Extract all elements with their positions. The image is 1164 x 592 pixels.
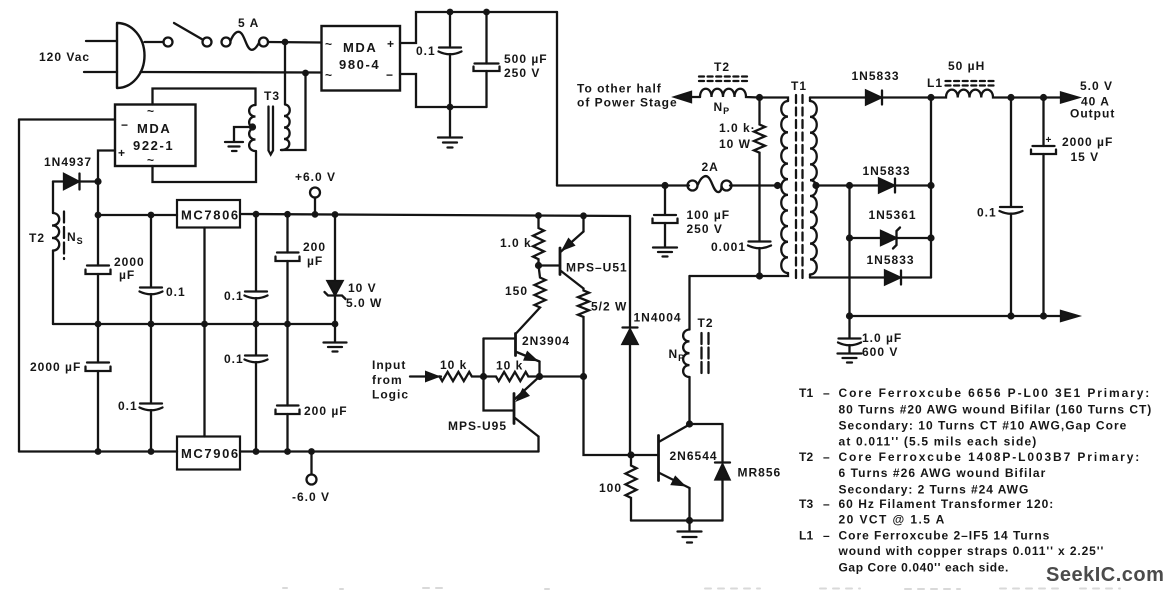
wire base column	[484, 339, 515, 411]
ground below C1	[438, 107, 462, 148]
node T2 top junction	[756, 94, 763, 101]
svg-text:2N6544: 2N6544	[670, 449, 718, 463]
faint bottom marks	[283, 588, 1120, 589]
wire input arrow	[410, 372, 441, 381]
svg-text:2000 µF: 2000 µF	[1062, 135, 1113, 149]
svg-text:L1: L1	[927, 76, 943, 90]
resistor R7 1.0k 10W	[754, 98, 765, 241]
wire U3 gnd pin down	[203, 228, 205, 325]
wire node to U51 base	[539, 264, 561, 266]
bridge rectifier U1 MDA 980-4	[322, 26, 401, 91]
resistor R4 10k	[440, 372, 484, 381]
svg-text:µF: µF	[307, 254, 323, 268]
svg-text:15 V: 15 V	[1071, 150, 1100, 164]
svg-text:Secondary: 2 Turns #24 AWG: Secondary: 2 Turns #24 AWG	[839, 483, 1029, 497]
svg-text:922-1: 922-1	[133, 138, 174, 153]
node plus6 x256	[253, 211, 260, 218]
svg-text:6 Turns #26 AWG wound Bifilar: 6 Turns #26 AWG wound Bifilar	[839, 466, 1046, 480]
wire node down to T3 secondary top	[284, 42, 286, 104]
node T1 secondary tap	[812, 182, 819, 189]
node bottom line	[686, 517, 693, 524]
capacitor C12 0.001	[748, 242, 771, 277]
arrow output	[1061, 93, 1078, 103]
transformer T2 secondary winding Ns	[52, 213, 59, 251]
wire dc bus to fuse	[557, 184, 689, 186]
regulator U4 MC7906	[177, 437, 240, 470]
AC plug P1	[117, 23, 145, 88]
wire lower bus left	[19, 450, 177, 452]
wire diode rail vertical	[848, 186, 850, 317]
node return x1011	[1007, 312, 1014, 319]
svg-text:Logic: Logic	[372, 388, 409, 402]
regulator U3 MC7806	[177, 200, 240, 228]
svg-text:NP: NP	[714, 100, 731, 116]
inductor L1 core dashed	[946, 81, 995, 86]
zener diode D6 1N5361	[850, 228, 932, 249]
svg-text:1N5833: 1N5833	[867, 253, 915, 267]
wire regulator input line	[98, 214, 177, 216]
svg-text:1.0 k: 1.0 k	[500, 236, 532, 250]
node zener row right	[927, 234, 934, 241]
svg-text:5/2 W: 5/2 W	[591, 300, 627, 314]
diode D5 1N5833 mid	[850, 179, 932, 193]
svg-text:200 µF: 200 µF	[304, 404, 348, 418]
svg-text:1N4937: 1N4937	[44, 155, 92, 169]
svg-text:1.0 k·: 1.0 k·	[719, 121, 756, 135]
svg-text:1N5361: 1N5361	[869, 208, 917, 222]
wire diode anode down to T2 winding	[52, 182, 54, 214]
svg-text:+: +	[1046, 135, 1052, 146]
svg-text:T3: T3	[799, 497, 814, 511]
node base column	[480, 373, 487, 380]
svg-text:+: +	[387, 37, 395, 51]
node output x1011	[1007, 94, 1014, 101]
svg-text:100: 100	[599, 481, 622, 495]
capacitor C5 0.1 mid upper	[245, 214, 268, 324]
svg-text:MPS-U95: MPS-U95	[448, 419, 507, 433]
node lower bus x98	[95, 448, 102, 455]
label Input from Logic	[372, 358, 409, 402]
svg-text:NS: NS	[67, 230, 84, 246]
wire junction to 5/2W node	[540, 375, 584, 377]
svg-text:–: –	[823, 529, 830, 543]
wire 5/2W node down and right	[584, 377, 632, 456]
node L1 input	[927, 94, 934, 101]
transformer T2 core dashed	[63, 212, 65, 260]
switch S1	[164, 23, 212, 47]
node plus6 x335	[332, 211, 339, 218]
wire AC line top	[86, 40, 117, 42]
svg-text:250 V: 250 V	[504, 66, 540, 80]
wire U2 minus to left rail	[19, 118, 115, 120]
diode D3 MR856	[690, 424, 731, 521]
zener diode Z1 10V 5.0W	[325, 215, 346, 325]
wire node down to T3 secondary bottom	[281, 73, 306, 150]
wire U2 ac top to T3 primary top	[153, 89, 256, 106]
svg-text:~: ~	[147, 153, 155, 167]
node rail x931 mid	[927, 182, 934, 189]
svg-text:MC7806: MC7806	[181, 208, 240, 223]
svg-text:–: –	[823, 497, 830, 511]
transformer T2 core dashed mid	[702, 333, 709, 374]
notes text block	[799, 386, 1152, 575]
capacitor C13 1.0uF 600V	[838, 316, 862, 363]
svg-text:Gap Core 0.040'' each side.: Gap Core 0.040'' each side.	[839, 561, 1009, 575]
svg-text:Input: Input	[372, 358, 406, 372]
svg-text:T2: T2	[698, 316, 714, 330]
wire bridge plus output to top rail	[400, 12, 557, 43]
node lower bus x311	[308, 448, 315, 455]
svg-text:T1: T1	[799, 386, 814, 400]
transistor Q2 2N3904	[484, 334, 540, 377]
wire lower bus right	[240, 450, 539, 452]
svg-text:~: ~	[147, 104, 155, 118]
svg-text:1N5833: 1N5833	[852, 69, 900, 83]
capacitor C11 100uF 250V	[653, 186, 678, 247]
resistor R2 150	[516, 266, 546, 335]
fuse F2 2A	[688, 176, 732, 192]
transformer T2 winding top	[700, 89, 760, 98]
arrow to other half	[675, 92, 700, 102]
svg-text:1N4004: 1N4004	[634, 311, 682, 325]
wire tap to diode rail	[818, 184, 850, 186]
svg-text:MDA: MDA	[343, 40, 377, 55]
wire upper ground bus	[53, 323, 335, 325]
ground zener	[324, 324, 347, 352]
node 100uF tap	[661, 182, 668, 189]
resistor R6 100	[626, 455, 637, 521]
wire bridge minus output	[400, 74, 487, 107]
svg-text:–: –	[823, 450, 830, 464]
transformer T3 core	[269, 107, 274, 155]
svg-text:~: ~	[325, 68, 333, 82]
svg-text:Core Ferroxcube 6656 P-L00 3E1: Core Ferroxcube 6656 P-L00 3E1 Primary:	[839, 386, 1150, 400]
node fuse output	[282, 39, 289, 46]
transformer T2 core dashed top	[699, 77, 747, 82]
transistor Q3 MPS-U95	[514, 377, 540, 452]
svg-text:T1: T1	[791, 79, 807, 93]
wire U2 ac bottom to T3 primary bottom	[153, 151, 257, 182]
node R1 bottom	[535, 262, 542, 269]
capacitor C4 0.1 left upper	[140, 215, 163, 324]
diode D2 1N4004	[623, 216, 638, 455]
svg-text:5 A: 5 A	[238, 16, 259, 30]
fuse F1 5A	[222, 32, 269, 50]
svg-text:2N3904: 2N3904	[522, 334, 570, 348]
node emitter junction	[536, 373, 543, 380]
svg-text:MR856: MR856	[738, 466, 782, 480]
svg-text:T2: T2	[29, 231, 45, 245]
transformer T1 core dashed	[796, 95, 803, 281]
node bus x335	[332, 321, 339, 328]
svg-text:0.1: 0.1	[166, 285, 186, 299]
capacitor C6 200uF upper	[276, 214, 300, 324]
svg-text:10 k: 10 k	[440, 358, 467, 372]
node reg line x98	[95, 212, 102, 219]
svg-text:1.0 µF: 1.0 µF	[862, 331, 902, 345]
node rail bottom	[846, 312, 853, 319]
wire emitter bottom line	[631, 519, 723, 521]
capacitor C3 2000uF upper	[86, 215, 111, 324]
svg-text:L1: L1	[799, 529, 814, 543]
wire AC line bottom	[84, 71, 117, 73]
node AC bottom	[302, 70, 309, 77]
svg-text:MDA: MDA	[137, 121, 171, 136]
node zener row left	[846, 234, 853, 241]
node 5/2W bottom	[580, 373, 587, 380]
svg-text:-6.0 V: -6.0 V	[292, 490, 330, 504]
svg-text:Secondary: 10 Turns CT #10 AWG: Secondary: 10 Turns CT #10 AWG,Gap Core	[839, 419, 1127, 433]
diode D7 1N5833 bottom	[810, 271, 931, 285]
node return x1043	[1040, 312, 1047, 319]
node T1 primary tap	[774, 182, 781, 189]
label 5.0V 40A Output	[1070, 79, 1115, 121]
wire bus to U4 input pin	[203, 324, 205, 437]
node T3 primary center tap	[249, 123, 256, 130]
svg-text:600 V: 600 V	[862, 345, 898, 359]
transformer T1 secondary winding	[810, 98, 817, 278]
svg-text:250 V: 250 V	[687, 222, 723, 236]
capacitor C7 2000uF lower	[86, 324, 111, 452]
svg-text:50 µH: 50 µH	[948, 59, 985, 73]
wire plus6 line	[240, 214, 630, 216]
node minus rail	[447, 104, 454, 111]
svg-text:0.1: 0.1	[118, 399, 138, 413]
resistor R3 5/2W	[578, 289, 589, 377]
svg-text:T2: T2	[714, 60, 730, 74]
svg-text:0.1: 0.1	[977, 206, 997, 220]
svg-text:wound with copper straps 0.011: wound with copper straps 0.011'' x 2.25'…	[838, 544, 1104, 558]
label To other half of Power Stage	[577, 82, 678, 110]
node bus x287	[284, 321, 291, 328]
wire tap to ground	[234, 127, 253, 141]
node reg line x151	[148, 212, 155, 219]
svg-text:10 k: 10 k	[496, 359, 523, 373]
node plus6 x287	[284, 211, 291, 218]
svg-text:5.0 V: 5.0 V	[1080, 79, 1113, 93]
svg-text:150: 150	[505, 284, 528, 298]
svg-text:10 V: 10 V	[348, 281, 377, 295]
svg-text:µF: µF	[119, 268, 135, 282]
ground C11	[653, 248, 677, 257]
node top rail C1	[447, 9, 454, 16]
svg-text:5.0 W: 5.0 W	[346, 296, 382, 310]
svg-text:980-4: 980-4	[339, 57, 380, 72]
svg-text:2000 µF: 2000 µF	[30, 360, 81, 374]
node bus x256	[253, 321, 260, 328]
wire U2 plus down to diode node	[98, 151, 115, 182]
node bus x204	[201, 321, 208, 328]
capacitor C8 0.1 left lower	[140, 324, 163, 452]
capacitor C14 0.1 output	[1000, 98, 1023, 317]
capacitor C15 2000uF 15V	[1031, 98, 1056, 317]
svg-text:2A: 2A	[702, 160, 719, 174]
svg-text:of Power Stage: of Power Stage	[577, 96, 678, 110]
svg-text:2000: 2000	[114, 255, 145, 269]
svg-text:MPS–U51: MPS–U51	[566, 261, 628, 275]
transformer T3 secondary winding	[281, 105, 290, 151]
node output x1043	[1040, 94, 1047, 101]
wire ground return line	[850, 315, 1062, 317]
svg-text:Core Ferroxcube 2–IF5 14 Turns: Core Ferroxcube 2–IF5 14 Turns	[839, 529, 1050, 543]
wire output rail vertical	[930, 98, 932, 278]
svg-text:1N5833: 1N5833	[863, 164, 911, 178]
svg-text:T2: T2	[799, 450, 814, 464]
svg-text:Output: Output	[1070, 107, 1115, 121]
node diode cathode	[94, 178, 101, 185]
transformer T2 primary winding Np	[683, 276, 689, 424]
svg-text:20 VCT @ 1.5 A: 20 VCT @ 1.5 A	[839, 513, 945, 527]
svg-text:MC7906: MC7906	[181, 446, 240, 461]
inductor L1 50uH	[931, 90, 1061, 98]
capacitor C1 0.1	[439, 12, 462, 107]
wire plug to switch	[145, 41, 164, 43]
capacitor C2 500uF 250V	[474, 12, 500, 107]
wire AC bottom to bridge	[141, 71, 322, 74]
svg-text:0.1: 0.1	[224, 289, 244, 303]
ground T3 tap	[225, 142, 243, 151]
transformer T3 primary winding	[249, 105, 255, 151]
svg-text:−: −	[121, 118, 129, 132]
node bus x151	[148, 321, 155, 328]
svg-text:SeekIC.com: SeekIC.com	[1046, 564, 1164, 586]
resistor R1 1.0k	[533, 212, 544, 265]
svg-text:at 0.011'' (5.5 mils each side: at 0.011'' (5.5 mils each side)	[839, 435, 1037, 449]
svg-text:500 µF: 500 µF	[504, 52, 548, 66]
node lower bus x287	[284, 448, 291, 455]
node 0.001 bottom	[756, 272, 763, 279]
wire top rail down to 2A fuse line	[556, 12, 558, 186]
node Q4 collector	[686, 420, 693, 427]
terminal -6.0 V	[292, 452, 330, 505]
resistor R5 10k	[484, 372, 540, 381]
capacitor C9 0.1 mid lower	[245, 324, 268, 452]
wire node to Q4 base	[631, 454, 659, 456]
capacitor C10 200uF lower	[276, 324, 300, 452]
svg-text:0.1: 0.1	[416, 44, 436, 58]
ground Q4 emitter	[678, 521, 702, 543]
svg-text:10 W: 10 W	[719, 137, 751, 151]
svg-text:Core Ferroxcube 1408P-L003B7 P: Core Ferroxcube 1408P-L003B7 Primary:	[839, 450, 1140, 464]
svg-text:−: −	[386, 68, 394, 82]
svg-text:+: +	[118, 146, 126, 160]
terminal +6.0 V	[295, 170, 336, 214]
node base 2N6544	[627, 451, 634, 458]
svg-text:100 µF: 100 µF	[687, 208, 731, 222]
svg-text:0.1: 0.1	[224, 352, 244, 366]
wire fuse to bridge	[268, 41, 322, 44]
svg-text:from: from	[372, 373, 403, 387]
arrow ground return	[1061, 311, 1078, 321]
svg-text:80 Turns #20 AWG wound Bifilar: 80 Turns #20 AWG wound Bifilar (160 Turn…	[839, 403, 1152, 417]
svg-text:+6.0 V: +6.0 V	[295, 170, 336, 184]
node plus6 x315	[312, 211, 319, 218]
svg-text:200: 200	[303, 240, 326, 254]
svg-text:~: ~	[325, 37, 333, 51]
wire fuse to T1 primary tap	[730, 184, 781, 186]
node top rail C2	[483, 9, 490, 16]
svg-text:0.001: 0.001	[711, 240, 746, 254]
diode D1 1N4937	[53, 174, 98, 190]
transistor Q4 2N6544	[659, 425, 690, 521]
node lower bus x256	[253, 448, 260, 455]
svg-text:T3: T3	[264, 89, 280, 103]
wire left rail vertical	[18, 120, 20, 452]
wire node down to regulator line	[97, 182, 99, 216]
node lower bus x151	[148, 448, 155, 455]
wire Ns bottom to upper bus	[52, 251, 54, 325]
transistor Q1 MPS-U51	[560, 212, 587, 288]
svg-text:–: –	[823, 386, 830, 400]
svg-text:60 Hz Filament Transformer 12: 60 Hz Filament Transformer 120:	[839, 497, 1054, 511]
bridge rectifier U2 MDA 922-1	[115, 104, 196, 167]
svg-text:To other half: To other half	[577, 82, 662, 96]
node diode rail top	[846, 182, 853, 189]
node bus x98	[95, 321, 102, 328]
svg-text:120 Vac: 120 Vac	[39, 50, 90, 64]
transformer T1 primary winding	[690, 98, 789, 277]
diode D4 1N5833 top	[810, 91, 931, 105]
